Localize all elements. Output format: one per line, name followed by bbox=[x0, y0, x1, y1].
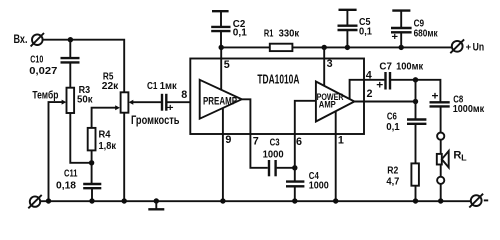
input terminal Вх bbox=[14, 32, 45, 46]
svg-text:1мк: 1мк bbox=[160, 80, 178, 92]
node C9/rail bbox=[399, 45, 404, 50]
svg-text:3: 3 bbox=[327, 58, 333, 70]
svg-text:100мк: 100мк bbox=[396, 60, 424, 72]
pin 5 wire bbox=[220, 47, 222, 90]
svg-text:4,7: 4,7 bbox=[386, 176, 399, 188]
wire C1 to pin 8 bbox=[167, 101, 200, 103]
svg-text:1,8к: 1,8к bbox=[99, 140, 117, 152]
svg-text:8: 8 bbox=[181, 89, 187, 101]
pin 7 wire from preamp output bbox=[242, 99, 268, 168]
wire C2 to rail / pin 5 bbox=[220, 32, 222, 47]
svg-text:330к: 330к bbox=[279, 27, 300, 39]
wire C7 to C8 corner bbox=[391, 80, 440, 102]
svg-text:Тембр: Тембр bbox=[32, 90, 58, 102]
pin 4 wire to C7 bbox=[350, 80, 385, 99]
node pin3/rail bbox=[322, 45, 327, 50]
capacitor C2 with ground bar bbox=[211, 11, 247, 38]
svg-text:Вх.: Вх. bbox=[14, 32, 28, 46]
svg-text:1000: 1000 bbox=[263, 148, 284, 160]
wire R3 bottom to R4 junction bbox=[70, 113, 91, 163]
svg-text:С3: С3 bbox=[270, 137, 280, 149]
svg-text:+: + bbox=[167, 103, 174, 114]
svg-text:1000мк: 1000мк bbox=[453, 103, 485, 115]
wire R5 bottom to ground bbox=[123, 113, 125, 201]
speaker RL bbox=[437, 133, 467, 202]
pin 9 wire bbox=[222, 108, 224, 201]
svg-text:2: 2 bbox=[367, 88, 373, 100]
node C3/pin6 junction bbox=[292, 165, 297, 170]
wire R5 wiper to C1 bbox=[133, 101, 161, 103]
wire between junctions down to C6 bbox=[415, 80, 417, 119]
capacitor C4 bbox=[286, 170, 329, 192]
op-amp IC box TDA1010A bbox=[190, 59, 364, 135]
ground junction dots bbox=[46, 198, 51, 203]
node R3/R4 junction bbox=[89, 160, 94, 165]
node C2/rail junction bbox=[219, 45, 224, 50]
ground terminal left bbox=[28, 195, 41, 208]
wire R3 wiper to ground bbox=[49, 102, 63, 201]
svg-text:0,1: 0,1 bbox=[386, 121, 400, 133]
wire junction to C10 bbox=[69, 40, 71, 58]
svg-text:1: 1 bbox=[338, 134, 344, 146]
svg-text:9: 9 bbox=[225, 134, 231, 146]
svg-text:0,18: 0,18 bbox=[56, 179, 76, 191]
node C5/rail bbox=[345, 45, 350, 50]
capacitor C10 bbox=[29, 54, 79, 77]
svg-text:R1: R1 bbox=[264, 27, 274, 39]
wire C10 to R3 bbox=[69, 63, 71, 87]
svg-text:680мк: 680мк bbox=[414, 27, 439, 39]
svg-text:R2: R2 bbox=[387, 164, 398, 176]
capacitor C6 bbox=[386, 111, 426, 133]
svg-text:Громкость: Громкость bbox=[131, 113, 180, 127]
terminal +Un bbox=[450, 39, 484, 53]
svg-text:0,027: 0,027 bbox=[29, 65, 57, 77]
svg-text:50к: 50к bbox=[77, 94, 93, 106]
capacitor C8 bbox=[430, 90, 485, 115]
svg-text:+: + bbox=[392, 32, 399, 43]
svg-text:PREAMP: PREAMP bbox=[203, 96, 237, 108]
svg-text:С7: С7 bbox=[379, 60, 392, 72]
resistor R2 bbox=[386, 163, 419, 187]
ground symbol bbox=[148, 198, 164, 209]
svg-text:С11: С11 bbox=[64, 168, 78, 180]
wire C6 to R2 bbox=[415, 125, 417, 164]
svg-text:С1: С1 bbox=[147, 80, 158, 92]
resistor R3 potentiometer bbox=[62, 84, 94, 113]
wire C3 to pin 6 line bbox=[277, 167, 295, 169]
wire top rail C2 to R1 bbox=[221, 46, 270, 48]
svg-text:+: + bbox=[432, 90, 439, 102]
wire C8 to speaker bbox=[440, 107, 442, 132]
wire top rail R1 to +Un bbox=[292, 46, 452, 48]
svg-text:0,1: 0,1 bbox=[233, 27, 247, 39]
pin 6 wire bbox=[295, 101, 316, 181]
svg-text:1000: 1000 bbox=[309, 180, 329, 192]
svg-text:22к: 22к bbox=[102, 80, 119, 92]
svg-text:6: 6 bbox=[296, 136, 302, 148]
op-amp U1b POWER AMP bbox=[316, 82, 355, 122]
capacitor C3 bbox=[263, 137, 284, 177]
svg-text:Un: Un bbox=[473, 42, 485, 54]
svg-text:+: + bbox=[466, 42, 472, 52]
capacitor C11 bbox=[56, 168, 101, 192]
op-amp U1a PREAMP bbox=[200, 80, 242, 119]
resistor R4 bbox=[88, 128, 117, 152]
svg-text:+: + bbox=[376, 80, 383, 92]
svg-text:С10: С10 bbox=[30, 54, 43, 66]
svg-text:5: 5 bbox=[224, 59, 230, 71]
capacitor C5 with ground bar bbox=[338, 10, 373, 38]
pin 3 wire bbox=[323, 47, 325, 85]
svg-text:4: 4 bbox=[366, 69, 373, 81]
capacitor C7 bbox=[376, 60, 423, 91]
wire input to R5 top bbox=[43, 40, 125, 93]
node C7/R2 branch bbox=[413, 77, 418, 82]
svg-text:AMP: AMP bbox=[319, 100, 337, 111]
ground terminal right bbox=[469, 194, 488, 208]
svg-text:0,1: 0,1 bbox=[359, 25, 372, 37]
capacitor C1 bbox=[147, 80, 177, 114]
resistor R1 bbox=[264, 27, 300, 51]
ground rail bbox=[40, 200, 471, 202]
wire R4 top to R5 left arrow bbox=[92, 108, 116, 128]
pin 2 wire bbox=[354, 101, 415, 103]
wire C11 to ground bbox=[91, 188, 93, 201]
pin 1 wire bbox=[335, 111, 337, 201]
svg-text:TDA1010A: TDA1010A bbox=[257, 73, 299, 87]
svg-text:7: 7 bbox=[253, 135, 259, 147]
svg-text:L: L bbox=[461, 154, 467, 163]
resistor R5 potentiometer bbox=[102, 71, 134, 113]
node pin2/zobel junction bbox=[413, 99, 418, 104]
wire R4 bottom to C11 bbox=[91, 150, 93, 183]
svg-text:R4: R4 bbox=[99, 129, 111, 141]
node input/C10 junction bbox=[68, 37, 73, 42]
capacitor C9 with ground bar bbox=[391, 11, 438, 43]
